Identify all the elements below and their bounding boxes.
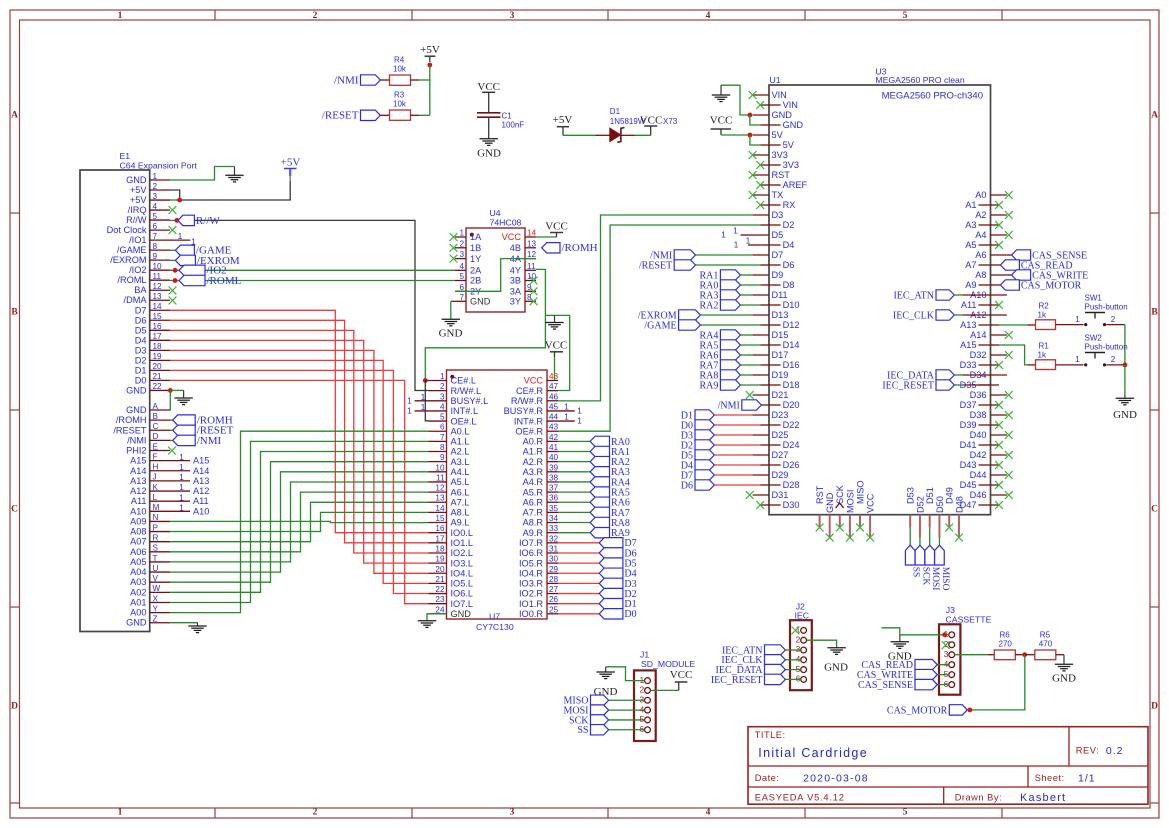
net flag RA9 at U7: [590, 527, 630, 539]
svg-text:C: C: [11, 505, 18, 515]
no-connect J2 pin1: [792, 627, 800, 635]
svg-text:34: 34: [549, 514, 559, 523]
svg-text:GND: GND: [1052, 673, 1076, 685]
no-connect U1 3V3: [749, 151, 757, 159]
svg-text:74HC08: 74HC08: [490, 217, 522, 227]
svg-text:4: 4: [459, 262, 464, 271]
wire IEC_CLK to J2 pin4: [785, 659, 800, 661]
wire RA1 to U1: [740, 274, 752, 276]
svg-text:IO2.L: IO2.L: [451, 548, 473, 558]
svg-text:GND: GND: [477, 148, 501, 160]
junction /IO2: [173, 268, 178, 273]
svg-text:D39: D39: [960, 420, 977, 430]
svg-text:E: E: [153, 442, 159, 451]
svg-text:A8.L: A8.L: [451, 508, 470, 518]
svg-text:35: 35: [549, 504, 559, 513]
svg-text:D46: D46: [970, 490, 987, 500]
svg-text:7: 7: [153, 232, 158, 241]
wire VCC to C1: [488, 92, 490, 112]
no-connect U1 A11: [995, 301, 1003, 309]
wire U7 to D3: [558, 582, 599, 584]
svg-text:3B: 3B: [510, 276, 521, 286]
svg-text:+5V: +5V: [281, 157, 301, 169]
wire J3 pin1 GND: [900, 634, 949, 636]
wire U7 pin24 GND: [427, 614, 447, 621]
svg-text:IO4.R: IO4.R: [519, 568, 543, 578]
svg-text:IEC_RESET: IEC_RESET: [711, 675, 763, 686]
wire U7 to RA7: [558, 511, 590, 513]
ground at E1 pin1: [225, 167, 243, 182]
frame column numbers bottom: [118, 808, 908, 818]
power +5V at R4: [420, 44, 440, 62]
wire D3 to U1: [714, 434, 752, 436]
svg-text:D44: D44: [970, 470, 987, 480]
svg-text:D52: D52: [915, 496, 925, 513]
svg-text:GND: GND: [126, 175, 147, 185]
no-connect U1 D33: [995, 361, 1003, 369]
wire RA2 to U1: [740, 304, 760, 306]
svg-text:2A: 2A: [470, 266, 482, 276]
junction R//W: [175, 218, 180, 223]
svg-text:F: F: [153, 452, 158, 461]
svg-text:A4.R: A4.R: [523, 477, 544, 487]
svg-text:IEC_RESET: IEC_RESET: [882, 380, 934, 391]
svg-text:/NMI: /NMI: [127, 435, 146, 445]
no-connect U1 D39: [995, 421, 1003, 429]
svg-text:1: 1: [179, 452, 184, 462]
svg-text:MISO: MISO: [940, 567, 950, 591]
svg-text:SCK: SCK: [835, 484, 845, 504]
ground at SW2: [1116, 395, 1134, 405]
svg-text:R//W: R//W: [196, 215, 220, 227]
svg-text:D40: D40: [970, 430, 987, 440]
wire D1 to VCC: [635, 134, 651, 136]
J2 pins 1-6: [796, 625, 807, 684]
net flag RA9 at U1: [699, 380, 740, 392]
net flag CAS_MOTOR at U1: [1000, 280, 1081, 292]
svg-text:/RESET: /RESET: [113, 425, 147, 435]
svg-text:T: T: [153, 554, 158, 563]
svg-text:A7.L: A7.L: [451, 497, 470, 507]
svg-text:1: 1: [179, 462, 184, 472]
no-connect U1 A5: [995, 241, 1003, 249]
wire E1 A12 stub: [170, 490, 190, 492]
svg-text:7: 7: [459, 293, 464, 302]
connector J3 CASSETTE: [939, 605, 992, 695]
svg-text:1A: 1A: [470, 232, 482, 242]
svg-text:H: H: [153, 463, 159, 472]
svg-text:CY7C130: CY7C130: [476, 622, 514, 632]
svg-text:1: 1: [639, 675, 644, 685]
svg-text:MEGA2560 PRO clean: MEGA2560 PRO clean: [875, 75, 964, 85]
svg-text:3: 3: [153, 192, 158, 201]
svg-text:A12: A12: [193, 486, 209, 496]
svg-text:IO1.L: IO1.L: [451, 538, 473, 548]
ground at J1: [597, 667, 615, 679]
svg-text:/RESET: /RESET: [322, 110, 359, 122]
wire R1 to SW2: [1056, 364, 1084, 366]
svg-text:IEC: IEC: [795, 611, 809, 621]
svg-text:D0: D0: [624, 609, 636, 620]
svg-text:100nF: 100nF: [502, 121, 525, 130]
svg-text:A5: A5: [965, 240, 976, 250]
svg-text:D0: D0: [135, 375, 147, 385]
svg-text:1k: 1k: [1038, 351, 1047, 360]
frame column ticks top: [215, 10, 1002, 20]
svg-text:A14: A14: [130, 466, 146, 476]
wire U7 to RA8: [558, 522, 590, 524]
svg-text:26: 26: [549, 595, 559, 604]
svg-text:D12: D12: [783, 320, 800, 330]
wire D1 to U1: [714, 414, 752, 416]
svg-text:D25: D25: [772, 430, 789, 440]
wire E1 pinC: [170, 429, 173, 431]
wire U7 to RA6: [558, 501, 590, 503]
svg-text:2: 2: [1111, 315, 1116, 324]
svg-text:1: 1: [407, 406, 412, 416]
net flag RA2 at U1: [699, 300, 740, 312]
svg-text:D37: D37: [960, 400, 977, 410]
svg-text:A5.L: A5.L: [451, 477, 470, 487]
svg-text:D23: D23: [772, 410, 789, 420]
net flag CAS_READ at J3: [861, 659, 937, 671]
svg-text:W: W: [153, 584, 161, 593]
wire /EXROM to U1 D13: [700, 314, 752, 316]
no-connect U1 VIN: [749, 91, 757, 99]
svg-text:D13: D13: [772, 310, 789, 320]
svg-text:A9.R: A9.R: [523, 528, 544, 538]
resistor R5: [1035, 631, 1056, 660]
wire MISO to J1 pin3: [609, 699, 645, 701]
svg-text:3: 3: [459, 250, 464, 259]
svg-text:GND: GND: [825, 492, 835, 513]
net flag RA6 at U7: [590, 497, 630, 509]
wire /GAME to U1 D12: [700, 324, 760, 326]
wire R5 pin1: [1025, 654, 1035, 656]
wire RA5 to U1: [740, 344, 760, 346]
wire E1 A13 stub: [170, 480, 190, 482]
svg-text:3: 3: [510, 808, 515, 818]
wire U1 D51 to MOSI: [929, 528, 931, 546]
svg-text:38: 38: [549, 473, 559, 482]
wire J3 pin3 to R6: [955, 654, 988, 656]
svg-text:6: 6: [639, 724, 644, 734]
net flag MOSI at J1: [563, 705, 608, 717]
wire U7 to D0: [558, 613, 599, 615]
no-connect U4 pin10: [530, 277, 538, 285]
wire IEC_DATA to J2 pin5: [785, 669, 800, 671]
svg-text:R: R: [153, 533, 159, 542]
svg-text:9: 9: [153, 252, 158, 261]
svg-text:A8: A8: [975, 270, 986, 280]
svg-text:P: P: [153, 523, 159, 532]
wire D4 to U1: [714, 464, 760, 466]
net flag /NMI at U1 D20: [718, 400, 762, 412]
svg-text:A8.R: A8.R: [523, 518, 544, 528]
svg-text:GND: GND: [1113, 409, 1137, 421]
svg-text:A4: A4: [975, 230, 986, 240]
svg-text:A09: A09: [130, 516, 146, 526]
svg-text:1: 1: [179, 482, 184, 492]
svg-text:A06: A06: [130, 547, 146, 557]
svg-text:BUSY#.L: BUSY#.L: [451, 396, 489, 406]
svg-text:D2: D2: [135, 355, 147, 365]
no-connect U1 RST: [749, 171, 757, 179]
svg-text:44: 44: [549, 413, 559, 422]
svg-text:A01: A01: [130, 597, 146, 607]
svg-text:CAS_MOTOR: CAS_MOTOR: [1021, 280, 1082, 291]
wire A00 E1 to U7: [170, 431, 429, 612]
svg-text:RA9: RA9: [699, 380, 718, 391]
svg-text:4: 4: [706, 808, 711, 818]
net flag /ROMH at U4: [542, 242, 598, 254]
svg-text:15: 15: [435, 514, 445, 523]
svg-text:5: 5: [153, 212, 158, 221]
net flag /ROML: [179, 275, 242, 287]
svg-text:D36: D36: [970, 390, 987, 400]
svg-text:10k: 10k: [393, 100, 407, 109]
ground at U7: [418, 621, 436, 628]
diode D1 1N5819: [610, 107, 646, 142]
wire R3 to +5V: [419, 114, 430, 116]
wire CAS_MOTOR to junction: [970, 655, 1025, 710]
wire E1 A14 stub: [170, 470, 190, 472]
svg-text:B: B: [1151, 308, 1158, 318]
wire R4 to +5V: [419, 79, 430, 81]
svg-text:VCC: VCC: [502, 232, 522, 242]
svg-text:A02: A02: [130, 587, 146, 597]
svg-text:1: 1: [153, 172, 158, 181]
svg-text:SS: SS: [911, 567, 921, 578]
U4 pin1 index dot: [470, 233, 474, 237]
svg-text:D: D: [11, 702, 18, 712]
svg-text:C: C: [1151, 505, 1158, 515]
svg-text:A7.R: A7.R: [523, 508, 544, 518]
svg-text:D8: D8: [783, 280, 795, 290]
svg-text:A11: A11: [961, 300, 977, 310]
net flag SCK at J1: [569, 715, 609, 727]
svg-text:N: N: [153, 513, 159, 522]
net flag IEC_RESET at J2: [711, 674, 786, 686]
svg-text:3: 3: [440, 392, 445, 401]
svg-text:PHI2: PHI2: [126, 446, 146, 456]
svg-text:VCC: VCC: [545, 340, 568, 352]
svg-text:14: 14: [153, 302, 163, 311]
svg-text:4: 4: [796, 654, 801, 664]
E1 pins 1-22: [107, 172, 170, 396]
net flag IEC_CLK: [893, 310, 954, 322]
wire E1 pinD: [170, 439, 173, 441]
wire U1 D2 to U7 OE#.R: [558, 225, 760, 431]
no-connect U4 pin1: [450, 233, 458, 241]
wire U7 to D1: [558, 603, 599, 605]
svg-text:15: 15: [153, 312, 163, 321]
svg-text:IO3.R: IO3.R: [519, 579, 543, 589]
wire /NMI to U1 D20: [760, 404, 761, 406]
svg-text:3V3: 3V3: [783, 160, 799, 170]
svg-text:2: 2: [1111, 355, 1116, 364]
wire D0 to U1: [714, 424, 760, 426]
wire U1 5V pin6: [750, 135, 760, 145]
svg-text:IO4.L: IO4.L: [451, 568, 473, 578]
svg-text:GND: GND: [126, 385, 147, 395]
wire IEC_RESET to J2 pin6: [785, 678, 800, 680]
wire +5V to D1 anode: [563, 134, 596, 136]
ground at J3: [891, 635, 909, 649]
svg-text:D17: D17: [772, 350, 789, 360]
wire A08 E1 to U7: [170, 512, 429, 531]
net flag /GAME at U1: [644, 320, 700, 332]
svg-text:/RESET: /RESET: [639, 260, 672, 271]
svg-text:A0.R: A0.R: [523, 437, 544, 447]
svg-text:B: B: [153, 412, 159, 421]
svg-text:20: 20: [153, 362, 163, 371]
svg-text:A12: A12: [130, 486, 146, 496]
svg-text:R4: R4: [394, 56, 405, 65]
junction R6 R5: [1022, 652, 1027, 657]
net flag /GAME: [175, 245, 231, 257]
svg-text:R5: R5: [1040, 631, 1051, 640]
net flag RA0 at U7: [590, 436, 630, 448]
wire J3 GND elbow: [882, 628, 900, 635]
connector J2 IEC: [790, 601, 812, 690]
svg-text:1: 1: [733, 225, 738, 235]
svg-text:21: 21: [435, 575, 445, 584]
svg-text:IO6.L: IO6.L: [451, 589, 473, 599]
svg-text:A08: A08: [130, 527, 146, 537]
wire U7 pin48 VCC: [554, 357, 556, 381]
op-amp U4 74HC08: [466, 208, 525, 312]
svg-text:D5: D5: [135, 325, 147, 335]
svg-text:0.2: 0.2: [1106, 745, 1124, 757]
wire E1 pin3 stub: [170, 199, 176, 201]
svg-text:6: 6: [796, 674, 801, 684]
wire +5V net to flag: [176, 181, 290, 200]
svg-text:1: 1: [577, 405, 582, 415]
svg-text:41: 41: [549, 443, 559, 452]
svg-text:1: 1: [421, 392, 426, 402]
svg-text:IEC_ATN: IEC_ATN: [893, 290, 934, 301]
svg-text:D26: D26: [783, 460, 800, 470]
svg-text:3: 3: [639, 694, 644, 704]
wire E1 A10 stub: [170, 510, 190, 512]
svg-text:18: 18: [435, 544, 445, 553]
svg-text:6: 6: [944, 679, 949, 689]
net flag RA7 at U1: [699, 360, 740, 372]
net flag SCK below U1: [915, 545, 930, 585]
wire CAS_WRITE to J3 pin5: [937, 674, 949, 676]
net flag CAS_WRITE: [1012, 270, 1089, 282]
svg-text:8: 8: [440, 443, 445, 452]
power +5V at D1: [553, 114, 573, 135]
svg-text:17: 17: [435, 534, 445, 543]
svg-text:D: D: [1151, 702, 1158, 712]
svg-text:A13: A13: [960, 320, 976, 330]
net flag CAS_SENSE: [1012, 250, 1088, 262]
svg-text:Z: Z: [153, 615, 158, 624]
frame row letters left: [11, 111, 18, 712]
wire U7 to RA4: [558, 481, 590, 483]
svg-text:D7: D7: [135, 305, 147, 315]
wire U1 D53 to SS: [909, 528, 911, 546]
junction CE: [423, 378, 428, 383]
wire D1 cathode: [622, 134, 635, 136]
wire A12 inner: [963, 314, 991, 316]
wire RA4 to U1: [740, 334, 752, 336]
svg-text:D51: D51: [925, 487, 935, 504]
svg-text:A2.R: A2.R: [523, 457, 544, 467]
wire U1 A6: [1007, 254, 1012, 256]
svg-text:A9: A9: [965, 280, 976, 290]
wire CAS_SENSE to J3 pin6: [937, 684, 949, 686]
net flag MOSI below U1: [925, 545, 940, 590]
wire R6 to junction: [1015, 654, 1024, 656]
no-connect U1 D43: [995, 461, 1003, 469]
switch SW2 Push-button: [1075, 334, 1127, 367]
svg-text:2: 2: [639, 685, 644, 695]
svg-text:+5V: +5V: [553, 114, 573, 126]
wire A05 E1 to U7: [170, 482, 429, 562]
svg-text:CE#.L: CE#.L: [451, 376, 477, 386]
wire E1 A15 stub: [170, 460, 190, 462]
net flag D4 at U1: [681, 460, 715, 472]
svg-text:X: X: [153, 594, 159, 603]
net flag D6 at U1: [681, 480, 715, 492]
svg-text:24: 24: [435, 605, 445, 614]
net flag D1 at U7: [599, 598, 636, 610]
svg-text:IO0.R: IO0.R: [519, 609, 543, 619]
svg-text:A3: A3: [965, 220, 976, 230]
net flag D7 at U1: [681, 470, 715, 482]
svg-text:S: S: [153, 544, 159, 553]
svg-text:/IO1: /IO1: [129, 235, 146, 245]
svg-text:470: 470: [1039, 640, 1053, 649]
svg-text:D18: D18: [783, 380, 800, 390]
net flag IEC_RESET: [882, 380, 954, 392]
svg-text:MEGA2560 PRO-ch340: MEGA2560 PRO-ch340: [882, 91, 983, 102]
svg-text:D22: D22: [783, 420, 800, 430]
net flag /NMI at R4: [334, 74, 380, 86]
svg-text:A6: A6: [975, 250, 986, 260]
wire E1 pin22 GND: [170, 389, 183, 391]
svg-text:A07: A07: [130, 537, 146, 547]
junction E1 +5V: [177, 198, 182, 203]
svg-text:A10: A10: [130, 506, 146, 516]
no-connect U1 D46: [1005, 491, 1013, 499]
power VCC at C1: [477, 81, 500, 93]
svg-text:/IO2: /IO2: [129, 265, 146, 275]
svg-text:D45: D45: [960, 480, 977, 490]
wire CAS_READ to J3 pin4: [937, 664, 949, 666]
junction /ROML: [173, 278, 178, 283]
wire IEC_ATN to U1 A10: [954, 294, 963, 296]
wire A07 E1 to U7: [170, 502, 429, 541]
wire A02 E1 to U7: [170, 452, 429, 593]
svg-text:/NMI: /NMI: [718, 400, 740, 411]
wire IEC_ATN to J2 pin3: [785, 649, 800, 651]
net flag /IO2: [179, 265, 227, 277]
wire U4 pin14 VCC: [536, 236, 557, 238]
wire MOSI to J1 pin4: [609, 709, 645, 711]
svg-text:19: 19: [153, 352, 163, 361]
U7 pin1 index dot: [450, 375, 454, 379]
svg-text:D16: D16: [783, 360, 800, 370]
wire E1 pin8: [170, 249, 175, 251]
net flag CAS_WRITE at J3: [857, 669, 937, 681]
svg-text:B: B: [11, 308, 18, 318]
wire J1 pin1 GND: [606, 667, 645, 681]
svg-text:+5V: +5V: [130, 195, 147, 205]
